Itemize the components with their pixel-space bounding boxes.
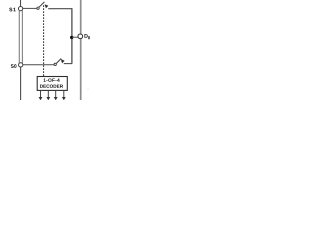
faint page mark: [87, 87, 89, 89]
wire: junction to terminal D0: [72, 36, 78, 38]
label S1: [9, 8, 16, 12]
gang stem double wire (left rail): [18, 11, 20, 64]
arrowhead on wire toward S0 arm: [61, 59, 65, 63]
wire: long vertical bus at right edge: [80, 0, 82, 100]
switch S0 pole contact: [19, 63, 23, 67]
wire: S1 arm to common bus: [48, 8, 72, 10]
decoder label line 1: [44, 78, 60, 81]
wire: stub above S1 pole: [20, 0, 22, 6]
switch S1 throw contact: [37, 7, 39, 9]
wire: S0 arm to common bus: [64, 63, 72, 65]
switch S1 pole contact: [18, 6, 22, 10]
decoder output pin 4: [63, 90, 65, 97]
label D: [84, 34, 87, 38]
decoder output pin 1: [40, 90, 42, 97]
label S0: [11, 64, 17, 68]
wire: S1 pole to throw contact: [23, 7, 37, 9]
background: [0, 0, 100, 100]
junction node: [70, 36, 73, 39]
decoder output pin 2: [47, 90, 49, 97]
wire: S0 pole to throw contact: [23, 64, 54, 66]
switch S0 throw contact: [54, 63, 56, 65]
label D subscript 0: [88, 36, 90, 39]
dashed gang linkage S1-S0-decoder: [43, 5, 45, 76]
switch S0 wiper arm: [56, 59, 61, 64]
decoder output pin 3: [55, 90, 57, 97]
decoder label line 2: [40, 85, 63, 88]
terminal D0 circle: [78, 34, 83, 39]
gang stem double wire (right rail): [21, 11, 23, 64]
decoder U1 box: [37, 77, 67, 91]
arrowhead on wire toward S1 arm: [45, 4, 49, 8]
wire: below S0 pole down to edge: [20, 67, 22, 100]
switch S1 wiper arm: [39, 2, 44, 7]
wire: common output bus V1: [71, 8, 73, 64]
